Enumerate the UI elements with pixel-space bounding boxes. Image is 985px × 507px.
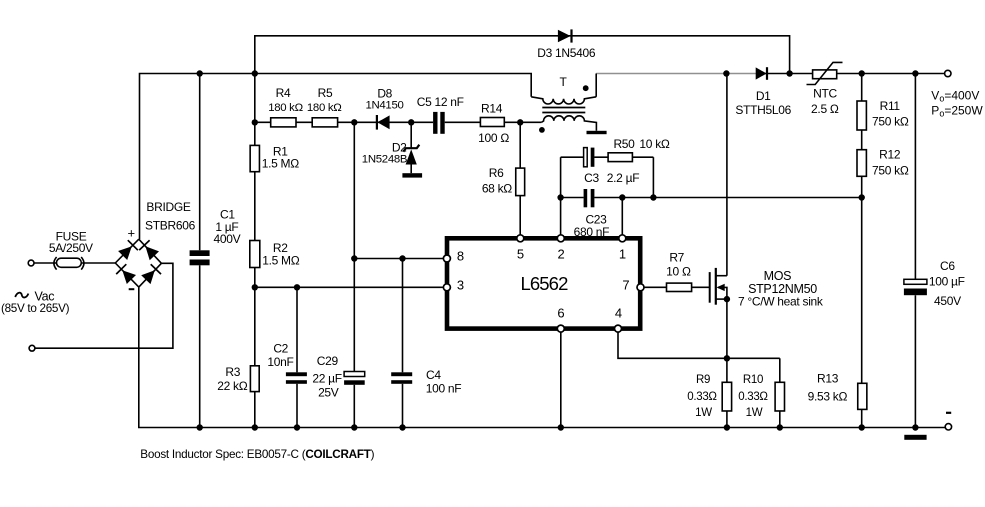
svg-text:NTC: NTC	[813, 87, 837, 101]
svg-text:1N5248B: 1N5248B	[362, 153, 407, 165]
svg-text:R5: R5	[318, 86, 333, 100]
svg-text:1N4150: 1N4150	[365, 100, 403, 112]
svg-text:R4: R4	[276, 86, 291, 100]
svg-text:1W: 1W	[746, 407, 763, 419]
svg-text:0.33Ω: 0.33Ω	[738, 391, 768, 403]
svg-text:Po=250W: Po=250W	[931, 104, 983, 119]
svg-text:100 µF: 100 µF	[929, 274, 965, 288]
svg-text:C29: C29	[317, 354, 339, 368]
svg-text:C3: C3	[584, 171, 599, 185]
svg-text:R14: R14	[481, 102, 503, 116]
svg-text:R13: R13	[817, 372, 839, 386]
svg-text:5A/250V: 5A/250V	[49, 241, 93, 255]
svg-text:22 kΩ: 22 kΩ	[217, 379, 247, 393]
svg-text:10nF: 10nF	[267, 355, 293, 369]
svg-text:400V: 400V	[213, 232, 240, 246]
svg-text:8: 8	[457, 248, 464, 263]
svg-text:R6: R6	[489, 166, 504, 180]
svg-text:2.5 Ω: 2.5 Ω	[811, 102, 839, 116]
svg-text:R7: R7	[669, 251, 684, 265]
svg-text:R50: R50	[613, 137, 635, 151]
svg-text:(85V to 265V): (85V to 265V)	[1, 302, 70, 315]
svg-text:180 kΩ: 180 kΩ	[268, 102, 303, 114]
svg-text:L6562: L6562	[521, 273, 569, 294]
svg-text:BRIDGE: BRIDGE	[146, 200, 191, 214]
svg-text:R11: R11	[880, 99, 901, 113]
svg-text:STBR606: STBR606	[145, 219, 196, 233]
svg-text:4: 4	[615, 305, 622, 320]
svg-text:1.5 MΩ: 1.5 MΩ	[262, 254, 300, 268]
svg-text:D8: D8	[377, 87, 392, 101]
svg-text:C4: C4	[426, 368, 441, 382]
svg-text:1: 1	[619, 246, 626, 261]
svg-text:10 Ω: 10 Ω	[666, 265, 691, 279]
svg-text:Boost Inductor Spec: EB0057-C: Boost Inductor Spec: EB0057-C (COILCRAFT…	[140, 448, 374, 461]
svg-text:6: 6	[557, 305, 564, 320]
svg-text:R12: R12	[879, 148, 901, 162]
svg-text:3: 3	[457, 278, 464, 293]
svg-text:9.53 kΩ: 9.53 kΩ	[808, 389, 848, 403]
svg-text:Vo=400V: Vo=400V	[931, 89, 979, 104]
svg-text:7 °C/W heat sink: 7 °C/W heat sink	[738, 295, 824, 309]
svg-text:10 kΩ: 10 kΩ	[639, 137, 669, 151]
svg-text:680 nF: 680 nF	[574, 225, 610, 239]
svg-text:1.5 MΩ: 1.5 MΩ	[262, 156, 300, 170]
svg-text:D2: D2	[392, 140, 407, 154]
svg-text:100 Ω: 100 Ω	[478, 131, 509, 145]
svg-text:C2: C2	[273, 341, 288, 355]
svg-text:C5 12 nF: C5 12 nF	[417, 95, 464, 109]
svg-text:450V: 450V	[934, 294, 961, 308]
svg-text:R9: R9	[696, 374, 710, 386]
svg-text:0.33Ω: 0.33Ω	[687, 391, 717, 403]
svg-text:22 µF: 22 µF	[312, 372, 341, 386]
svg-text:C6: C6	[940, 259, 955, 273]
svg-text:7: 7	[622, 278, 629, 293]
svg-text:750 kΩ: 750 kΩ	[872, 164, 909, 178]
svg-text:1W: 1W	[695, 407, 712, 419]
svg-text:25V: 25V	[318, 386, 339, 400]
svg-text:5: 5	[517, 246, 524, 261]
svg-text:68 kΩ: 68 kΩ	[482, 182, 512, 196]
svg-text:R3: R3	[225, 365, 240, 379]
svg-text:180 kΩ: 180 kΩ	[307, 102, 342, 114]
svg-text:+: +	[127, 226, 134, 241]
svg-text:D1: D1	[756, 89, 771, 103]
svg-text:2: 2	[558, 246, 565, 261]
svg-text:750 kΩ: 750 kΩ	[872, 115, 909, 129]
svg-text:2.2 µF: 2.2 µF	[607, 171, 639, 185]
svg-text:D3 1N5406: D3 1N5406	[537, 46, 596, 60]
svg-text:100 nF: 100 nF	[426, 382, 462, 396]
svg-text:STTH5L06: STTH5L06	[735, 103, 791, 117]
svg-text:T: T	[559, 75, 567, 89]
svg-text:R10: R10	[743, 374, 763, 386]
